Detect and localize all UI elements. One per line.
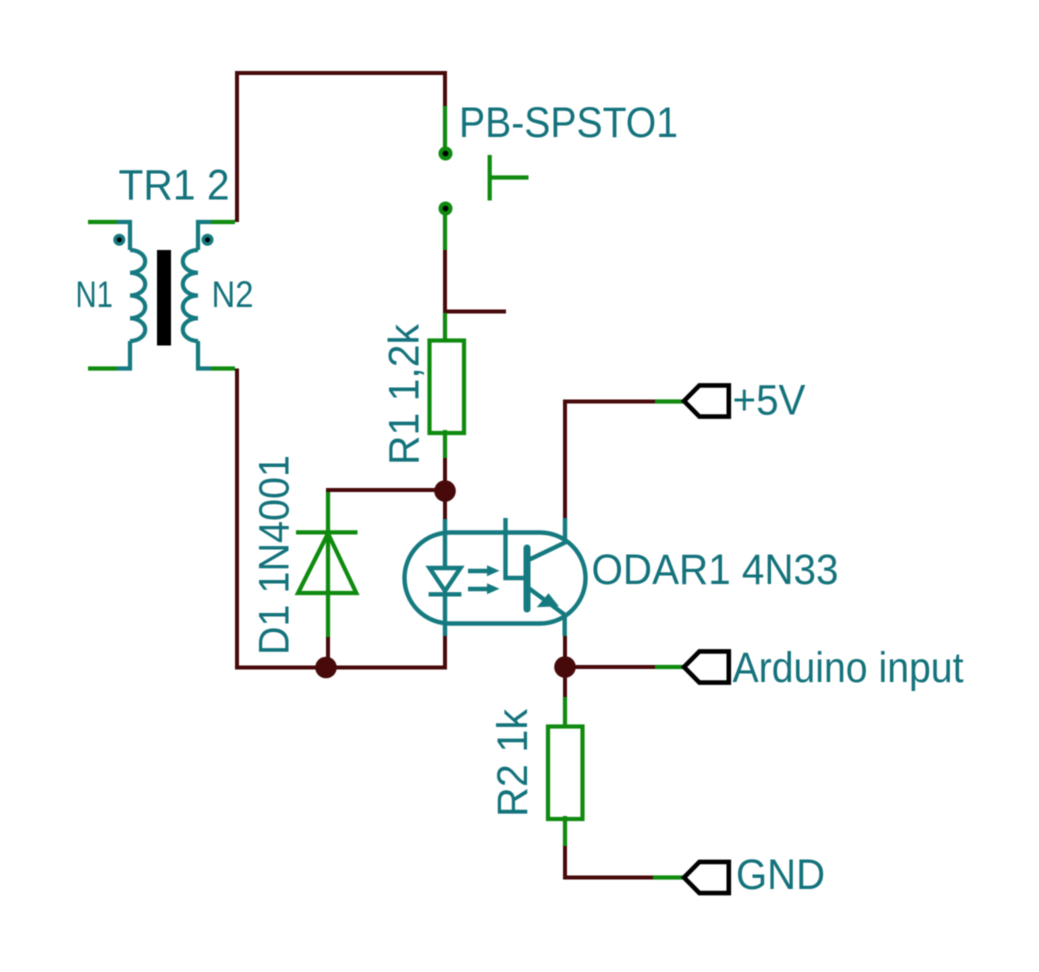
ODAR1 LED cathode bar bbox=[429, 592, 462, 596]
svg-text:TR1 2: TR1 2 bbox=[119, 161, 230, 209]
TR1 pin bottom-left bbox=[117, 341, 130, 369]
PB contact top bbox=[439, 147, 453, 161]
svg-text:+5V: +5V bbox=[733, 377, 806, 425]
TR1 pin top-right bbox=[211, 220, 235, 224]
wire +5V to optocoupler collector bbox=[565, 402, 655, 520]
TR1 polarity dot right bbox=[202, 234, 214, 246]
TR1 polarity dot left bbox=[113, 234, 125, 246]
wire Arduino node to R2 top bbox=[563, 667, 567, 697]
svg-text:Arduino input: Arduino input bbox=[733, 644, 964, 692]
ODAR1 collector lead bbox=[529, 518, 566, 560]
svg-text:R1 1,2k: R1 1,2k bbox=[381, 324, 429, 465]
resistor R1 bbox=[430, 313, 465, 458]
ODAR1 LED triangle bbox=[430, 568, 461, 591]
ODAR1 emitter arrowhead bbox=[537, 593, 559, 607]
D1 triangle bbox=[298, 534, 356, 594]
svg-text:R2 1k: R2 1k bbox=[489, 709, 537, 817]
pushbutton PB-SPSTO1 bbox=[439, 106, 529, 250]
svg-text:N1: N1 bbox=[76, 274, 114, 315]
terminal GND bbox=[653, 862, 729, 893]
wire optocoupler emitter to Arduino node bbox=[563, 636, 567, 667]
svg-text:D1 1N4001: D1 1N4001 bbox=[251, 455, 299, 655]
optocoupler ODAR1 4N33 bbox=[405, 518, 586, 636]
PB contact bottom bbox=[439, 202, 453, 216]
PB pin bottom bbox=[443, 215, 447, 250]
svg-text:N2: N2 bbox=[212, 274, 254, 315]
diode D1 1N4001 bbox=[296, 492, 358, 637]
junction node at D1 anode on bottom rail bbox=[315, 657, 337, 679]
ODAR1 emitter pin bbox=[563, 613, 567, 636]
junction node at Arduino input bbox=[554, 656, 576, 678]
TR1 winding N1 bbox=[130, 250, 145, 341]
wire left rail TR1 bottom to bottom rail to LED cathode bbox=[237, 369, 445, 668]
terminal Arduino input bbox=[655, 651, 729, 682]
wire node A to optocoupler LED anode bbox=[443, 490, 447, 519]
TR1 pin top-left bbox=[88, 220, 117, 224]
ODAR1 LED anode pin bbox=[443, 519, 447, 568]
wire Arduino node to terminal bbox=[565, 665, 655, 669]
PB pin top bbox=[443, 106, 447, 147]
ODAR1 transistor base bar bbox=[524, 548, 531, 609]
svg-text:ODAR1 4N33: ODAR1 4N33 bbox=[592, 546, 839, 594]
TR1 pin bottom-right bbox=[198, 341, 211, 369]
wire D1 bottom to bottom rail bbox=[326, 637, 330, 668]
resistor R2 bbox=[548, 697, 583, 846]
wire R2 bottom to GND terminal bbox=[565, 846, 653, 878]
wire pushbutton bottom to R1 top bbox=[443, 250, 447, 313]
wire R1 bottom to node A bbox=[443, 458, 447, 492]
transformer TR1 bbox=[88, 222, 235, 369]
ODAR1 emitter lead bbox=[529, 588, 565, 615]
PB actuator bbox=[488, 155, 492, 201]
wire node A to D1 top bbox=[328, 490, 445, 494]
TR1 winding N2 bbox=[183, 250, 198, 341]
TR1 core bbox=[157, 250, 171, 346]
ODAR1 package outline bbox=[405, 533, 586, 624]
ODAR1 LED cathode pin bbox=[443, 594, 447, 636]
ODAR1 light arrow upper bbox=[468, 569, 489, 573]
wire top horizontal from TR1 top to pushbutton bbox=[237, 73, 445, 222]
ODAR1 light arrow lower bbox=[468, 587, 489, 591]
D1 cathode bar bbox=[296, 530, 358, 534]
ODAR1 base lead bbox=[506, 518, 525, 578]
svg-text:PB-SPSTO1: PB-SPSTO1 bbox=[459, 99, 678, 147]
wire stub right of R1 top node bbox=[445, 310, 506, 314]
junction node A bbox=[434, 480, 456, 502]
terminal +5V bbox=[655, 385, 729, 416]
svg-text:GND: GND bbox=[736, 851, 825, 899]
